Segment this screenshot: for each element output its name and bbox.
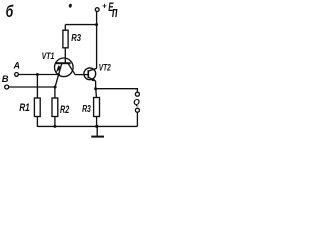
label B — [2, 73, 9, 84]
resistor R1 — [34, 98, 40, 117]
wire R3 top lead — [64, 25, 66, 30]
node A/R1 junction — [36, 73, 39, 76]
transistor VT1 base bar — [56, 62, 71, 64]
wire VT2 emitter down — [95, 81, 97, 89]
figure label б — [6, 3, 14, 21]
wire R3 feed — [65, 24, 96, 26]
wire R3 bottom lead to VT1 base — [64, 48, 66, 63]
label A — [13, 60, 21, 70]
svg-text:+: + — [102, 2, 107, 11]
transistor VT2 emitter arrow — [92, 78, 96, 82]
label Q — [133, 97, 140, 107]
terminal +Eп — [95, 8, 99, 12]
label R3 (lower) — [82, 104, 91, 115]
node R3/rail/ground junction — [95, 125, 98, 128]
ink speck artifact — [68, 3, 72, 8]
svg-text:A: A — [13, 60, 21, 70]
node rail/R3 junction — [95, 23, 98, 26]
transistor VT2 base bar — [87, 70, 89, 78]
terminal Q lower — [135, 108, 139, 112]
wire VT1 collector to VT2 base — [75, 74, 88, 76]
svg-text:R1: R1 — [19, 102, 30, 114]
wire input B line — [9, 86, 55, 88]
terminal Q upper — [135, 92, 139, 96]
resistor R3 (upper) — [63, 30, 68, 48]
transistor VT1 emitter diagonal — [55, 64, 62, 87]
wire R1 bottom lead — [36, 117, 38, 127]
wire R1 top lead — [36, 75, 38, 99]
transistor VT2 emitter diagonal — [89, 77, 96, 81]
transistor Q2 VT2 circle — [84, 68, 96, 80]
resistor R2 — [52, 98, 58, 117]
wire output line — [96, 89, 138, 93]
resistor R3 (lower) — [94, 98, 100, 117]
wire bottom rail — [37, 125, 137, 127]
node A/emitter junction — [57, 73, 60, 76]
svg-text:R3: R3 — [82, 104, 91, 115]
transistor VT1 emitter arrow — [56, 65, 62, 72]
transistor Q1 VT1 circle — [55, 58, 74, 77]
node B/emitter/R2 junction — [54, 86, 57, 89]
wire R2 top lead — [54, 87, 56, 98]
label R3 (upper) — [71, 33, 81, 44]
wire input A line — [19, 74, 59, 76]
svg-text:B: B — [2, 73, 9, 84]
transistor VT1 collector diagonal — [68, 64, 75, 75]
svg-text:R3: R3 — [71, 33, 81, 44]
svg-text:п: п — [112, 4, 118, 21]
node emitter/R3/output junction — [94, 87, 97, 90]
wire +Eп rail — [96, 12, 98, 69]
terminal input B — [5, 85, 9, 89]
svg-text:VT2: VT2 — [99, 63, 111, 74]
svg-text:б: б — [6, 3, 14, 21]
svg-text:R2: R2 — [60, 104, 69, 116]
label VT2 — [99, 63, 111, 74]
wire R3 lower bottom lead — [96, 117, 98, 127]
transistor VT2 collector diagonal — [89, 68, 97, 71]
label R2 — [60, 104, 69, 116]
svg-text:VT1: VT1 — [42, 51, 55, 62]
ground — [91, 126, 104, 136]
wire Q lower to rail — [136, 112, 138, 126]
wire R2 bottom lead — [54, 117, 56, 127]
label +Eп — [102, 2, 118, 21]
label R1 — [19, 102, 30, 114]
node R2/rail junction — [53, 125, 56, 128]
terminal input A — [15, 73, 19, 77]
svg-text:Q: Q — [133, 97, 140, 107]
wire R3 lower top lead — [95, 89, 98, 98]
label VT1 — [42, 51, 55, 62]
